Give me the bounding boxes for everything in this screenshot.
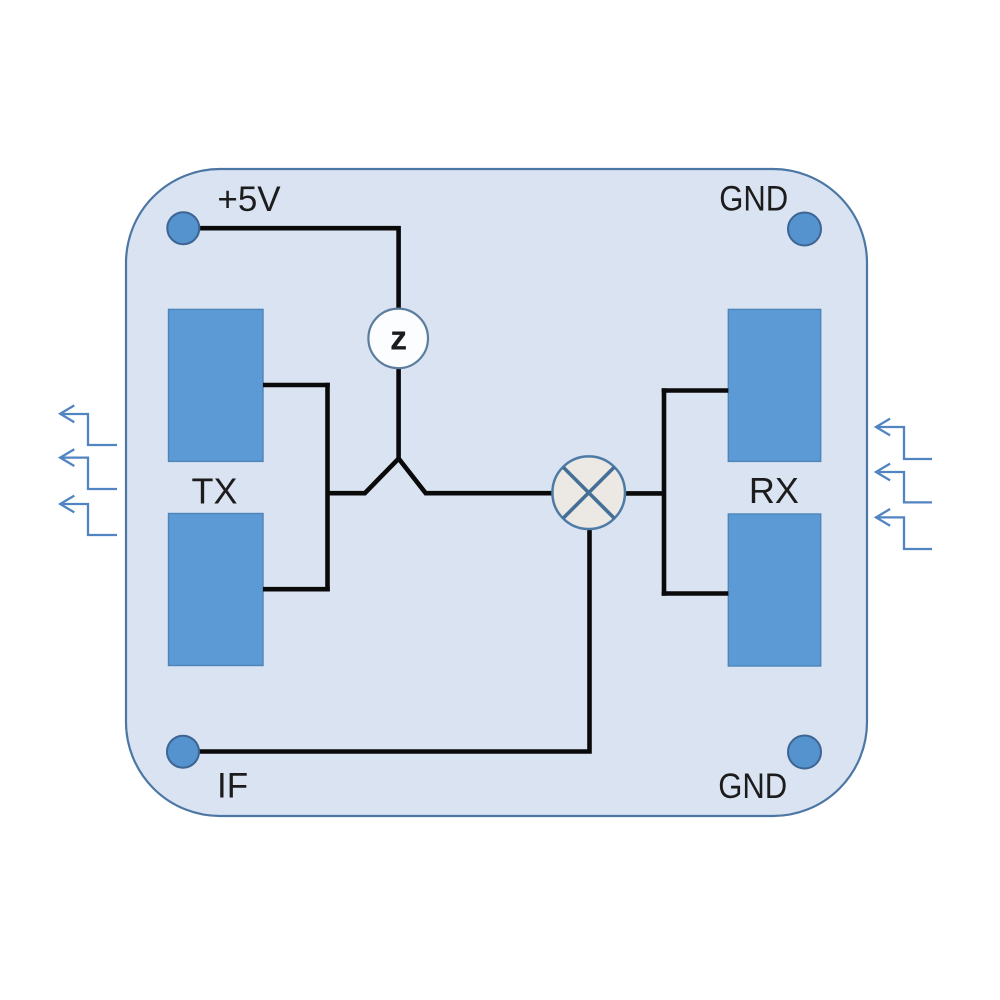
svg-text:RX: RX [749, 470, 799, 511]
arrow TX 1 [60, 405, 117, 445]
wire RX bus vertical [662, 388, 667, 596]
wire RX feed top [662, 388, 729, 393]
arrow RX 3 [876, 509, 932, 549]
svg-text:+5V: +5V [217, 180, 281, 219]
pad/hole GND (top-right) [788, 213, 821, 246]
pad/hole IF (bottom-left) [167, 736, 199, 768]
mixer X mark [563, 467, 614, 518]
wire TX feed top [263, 383, 330, 388]
wire RX feed bottom [662, 591, 729, 596]
svg-text:z: z [390, 320, 407, 358]
wire mixer to RX bus [625, 491, 664, 496]
board / PCB outline [126, 169, 867, 816]
pad/hole +5V (top-left) [167, 212, 199, 244]
svg-text:GND: GND [719, 180, 788, 219]
TX patch antenna 1 [169, 309, 264, 461]
mixer body [552, 456, 625, 529]
wire TX bus vertical [325, 383, 330, 592]
RX patch antenna 2 [728, 514, 820, 666]
wire oscillator to Y-splitter [396, 368, 401, 459]
wire mixer IF output to IF pad [183, 529, 590, 752]
RX patch antenna 1 [728, 309, 820, 461]
TX patch antenna 2 [169, 514, 264, 666]
wire Y-splitter right branch to mixer [399, 459, 553, 494]
arrow TX 2 [60, 449, 117, 489]
svg-text:IF: IF [217, 767, 248, 806]
wire +5V: pad to oscillator [183, 228, 398, 308]
arrow RX 1 [876, 419, 932, 459]
oscillator Z [368, 309, 428, 369]
wire Y-splitter left branch to TX bus [328, 459, 399, 494]
svg-text:GND: GND [718, 767, 787, 806]
wire TX feed bottom [263, 587, 330, 592]
arrow RX 2 [876, 464, 932, 503]
pad/hole GND (bottom-right) [788, 736, 821, 769]
arrow TX 3 [60, 496, 117, 535]
svg-text:TX: TX [191, 471, 237, 512]
